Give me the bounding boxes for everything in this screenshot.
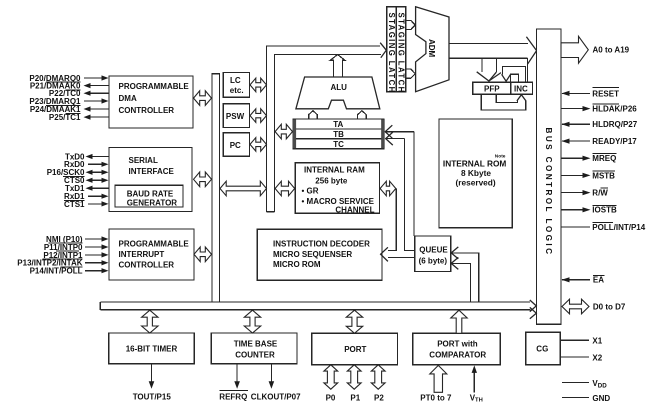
svg-text:HLDRQ/P27: HLDRQ/P27 — [592, 120, 637, 129]
signal EA — [562, 275, 605, 284]
svg-text:CG: CG — [536, 345, 548, 354]
svg-text:INSTRUCTION DECODER: INSTRUCTION DECODER — [273, 240, 370, 249]
svg-text:etc.: etc. — [230, 86, 244, 95]
block: internal ROM — [439, 119, 512, 228]
wire: queue to decoder — [388, 257, 415, 259]
svg-text:MSTB: MSTB — [592, 171, 615, 180]
signal P21/DMAAK0 (overline) — [30, 82, 109, 91]
svg-text:(6 byte): (6 byte) — [419, 256, 448, 265]
signal X2 — [560, 353, 603, 362]
signal REFRQ — [219, 364, 248, 402]
svg-text:CONTROLLER: CONTROLLER — [119, 260, 175, 269]
register PSW — [223, 104, 249, 128]
block: serial interface — [109, 148, 192, 212]
svg-text:REFRQ: REFRQ — [219, 392, 247, 401]
wire: PFP to INC bottom loop (inner) — [496, 94, 517, 102]
port D0 to D7 (double arrow) — [562, 299, 626, 314]
svg-text:ALU: ALU — [331, 83, 348, 92]
connector INC top (staple) — [510, 74, 518, 82]
block: baud rate generator — [115, 185, 183, 207]
wire: branch down to PFP (open down arrow) — [477, 58, 501, 81]
connector ALU to TA (pentagon) — [309, 111, 318, 119]
svg-text:INTERFACE: INTERFACE — [129, 167, 175, 176]
svg-text:MREQ: MREQ — [592, 154, 616, 163]
signal IOSTB — [561, 205, 617, 214]
wire: INC to PFP top loop (outer) — [496, 58, 527, 82]
signal P11/INTP0 (underline) — [44, 243, 109, 252]
svg-text:COMPARATOR: COMPARATOR — [429, 350, 486, 359]
wire: RAM to v1 (double arrow) — [380, 181, 396, 196]
connector staging latch to ADM lower (pentagon) — [406, 69, 416, 78]
svg-text:TA: TA — [333, 120, 343, 129]
wire: TB line to v3 — [385, 125, 414, 236]
bus A (internal dual bus, vertical) — [212, 74, 220, 302]
svg-text:SERIAL: SERIAL — [129, 156, 158, 165]
svg-text:INTERNAL ROM: INTERNAL ROM — [443, 158, 507, 168]
signal P16/SCK0 (underline) — [47, 168, 109, 177]
wire: interrupt to bus A (double arrow) — [194, 247, 212, 262]
wire: TC line to v2 into queue — [386, 132, 415, 250]
svg-text:Note: Note — [495, 154, 506, 160]
register LC etc. — [223, 72, 249, 97]
signal P20/DMARQ0 — [29, 74, 108, 83]
svg-text:CONTROLLER: CONTROLLER — [119, 106, 175, 115]
svg-text:P25/TC1: P25/TC1 — [49, 113, 81, 122]
svg-text:PORT: PORT — [344, 345, 366, 354]
svg-text:BUS CONTROL LOGIC: BUS CONTROL LOGIC — [544, 128, 553, 257]
power VDD — [562, 379, 607, 390]
signal TOUT/P15 — [133, 364, 172, 402]
svg-text:IOSTB: IOSTB — [592, 206, 617, 215]
register INC — [511, 82, 533, 94]
svg-text:TOUT/P15: TOUT/P15 — [133, 392, 172, 401]
svg-text:PFP: PFP — [484, 85, 500, 94]
svg-text:CLKOUT/P07: CLKOUT/P07 — [251, 392, 301, 401]
block: port — [312, 333, 398, 365]
block: queue (6 byte) — [415, 236, 451, 272]
port P2 (double arrow) — [371, 365, 385, 403]
block: bus control logic — [537, 29, 561, 324]
svg-text:STAGING LATCH: STAGING LATCH — [387, 13, 396, 94]
svg-text:CTS1: CTS1 — [64, 200, 85, 209]
register PFP — [473, 82, 511, 94]
signal P13/INTP2/INTAK (underline on INTAK) — [17, 259, 108, 268]
signal VTH — [470, 365, 483, 403]
svg-text:MICRO ROM: MICRO ROM — [273, 260, 321, 269]
block: programmable DMA controller — [109, 76, 193, 128]
svg-text:GND: GND — [592, 394, 610, 403]
svg-text:PROGRAMMABLE: PROGRAMMABLE — [119, 239, 190, 248]
svg-text:P14/INT/POLL: P14/INT/POLL — [30, 267, 83, 276]
chevron arrowhead into staging latch — [380, 43, 386, 58]
signal R/W — [561, 188, 608, 197]
signal P25/TC1 (overline on TC1) — [49, 113, 109, 122]
staging latch 2 — [396, 7, 406, 94]
svg-text:PC: PC — [230, 141, 241, 150]
port P0 (double arrow) — [324, 365, 338, 403]
register file TA/TB/TC — [293, 119, 385, 149]
svg-text:HLDAK/P26: HLDAK/P26 — [592, 105, 637, 114]
svg-text:P0: P0 — [326, 393, 336, 402]
svg-text:LC: LC — [230, 76, 241, 85]
wire: LC to bus B (double arrow) — [250, 78, 267, 92]
wire: bus B to TA/TB/TC (double arrow) — [275, 124, 292, 139]
svg-text:• GR: • GR — [302, 187, 319, 196]
signal P24/DMAAK1 (overline) — [30, 105, 109, 114]
signal MSTB — [561, 171, 615, 180]
signal TxD1 — [65, 184, 109, 193]
signal MREQ — [561, 154, 617, 163]
svg-text:INTERNAL RAM: INTERNAL RAM — [304, 165, 365, 174]
svg-text:P2: P2 — [374, 393, 384, 402]
svg-text:P1: P1 — [350, 393, 360, 402]
wire: INC to PFP top loop (inner) — [503, 66, 526, 82]
svg-text:ADM: ADM — [427, 39, 436, 58]
wire: bus to port (double arrow) — [346, 310, 362, 333]
chevron arrowheads bus into BCL — [530, 300, 537, 312]
svg-text:QUEUE: QUEUE — [419, 246, 448, 255]
wire: PFP to INC bottom loop (outer) — [481, 94, 526, 110]
svg-text:POLL/INT/P14: POLL/INT/P14 — [592, 223, 645, 232]
block: time base counter — [211, 333, 297, 364]
wire: ADM output to bus control logic (upper line) — [449, 43, 528, 45]
svg-text:EA: EA — [593, 276, 604, 285]
bus B (dual bus to staging latches) — [267, 46, 381, 212]
wire: ADM output to bus control logic (lower line) — [449, 57, 528, 59]
signal P22/TC0 (overline on TC0) — [49, 89, 109, 98]
signal READY/P17 — [562, 137, 638, 146]
wire: bus to queue (lower right) — [451, 257, 470, 302]
wire: PC to bus B (double arrow) — [250, 138, 267, 152]
connector ALU to TA 2 (pentagon) — [358, 111, 367, 119]
signal X1 — [560, 337, 603, 346]
arrowhead into INC bottom (small V up) — [517, 95, 526, 101]
svg-text:256 byte: 256 byte — [315, 176, 348, 185]
signal HLDRQ/P27 — [562, 120, 638, 129]
svg-text:GENERATOR: GENERATOR — [127, 199, 178, 208]
wire: ALU output up arrow — [330, 55, 345, 78]
wire: PSW to bus B (double arrow) — [250, 109, 267, 123]
signal P14/INT/POLL — [30, 267, 109, 276]
svg-text:A0 to A19: A0 to A19 — [593, 46, 630, 55]
signal HLDAK/P26 — [561, 104, 637, 114]
wire: bus to time base counter (double arrow) — [244, 310, 260, 333]
svg-text:TC: TC — [333, 140, 344, 149]
svg-text:R/W: R/W — [592, 189, 608, 198]
svg-text:DMA: DMA — [119, 94, 137, 103]
svg-text:(reserved): (reserved) — [456, 178, 496, 188]
wire: bus to queue (upper right) — [451, 247, 479, 302]
wire: DMA to bus A (double arrow) — [194, 91, 212, 106]
svg-text:PORT with: PORT with — [437, 339, 478, 348]
svg-text:MICRO SEQUENSER: MICRO SEQUENSER — [273, 250, 352, 259]
svg-text:X2: X2 — [592, 353, 602, 362]
wire: v1 RAM to decoder arrow — [388, 189, 396, 251]
wire: port with comparator to bus (up arrow) — [451, 310, 467, 333]
svg-text:INC: INC — [514, 85, 528, 94]
svg-text:STAGING LATCH: STAGING LATCH — [396, 13, 405, 94]
svg-text:CHANNEL: CHANNEL — [335, 205, 374, 214]
wire: bus A to bus B (double arrow) — [220, 181, 267, 196]
svg-text:PT0 to 7: PT0 to 7 — [420, 393, 452, 402]
big open arrowhead into BCL — [526, 37, 536, 65]
port A0 to A19 (big hollow arrow) — [561, 36, 630, 63]
connector staging latch to ADM upper (pentagon) — [406, 20, 416, 29]
block: programmable interrupt controller — [109, 229, 194, 280]
signal RESET — [562, 88, 620, 99]
signal CTS1 — [64, 200, 108, 209]
op block ADM — [416, 7, 449, 92]
svg-text:16-BIT TIMER: 16-BIT TIMER — [126, 344, 178, 353]
block: 16-bit timer — [109, 333, 195, 364]
arrowhead into decoder (big chevron) — [381, 247, 388, 261]
svg-text:TB: TB — [333, 130, 344, 139]
svg-text:BAUD RATE: BAUD RATE — [127, 189, 174, 198]
block: port with comparator — [413, 333, 501, 365]
register PC — [223, 133, 249, 157]
signal NMI (P10) — [46, 235, 108, 244]
port P1 (double arrow) — [347, 365, 361, 403]
signal POLL/INT/P14 — [561, 223, 646, 232]
port PT0 to 7 (hollow up arrow) — [420, 365, 452, 402]
svg-text:PSW: PSW — [226, 112, 245, 121]
svg-text:PROGRAMMABLE: PROGRAMMABLE — [119, 82, 190, 91]
signal TxD0 — [65, 152, 109, 161]
signal CLKOUT/P07 — [251, 364, 301, 402]
block: instruction decoder / micro sequenser / micro ROM — [257, 229, 382, 280]
signal P12/INTP1 (underline) — [43, 251, 109, 260]
svg-text:READY/P17: READY/P17 — [592, 137, 637, 146]
wire: bus to timer (double arrow) — [142, 310, 158, 333]
block: internal RAM — [295, 163, 379, 215]
svg-text:TIME BASE: TIME BASE — [234, 339, 278, 348]
svg-text:RESET: RESET — [592, 89, 619, 98]
block: CG — [526, 332, 561, 364]
ground GND — [562, 394, 610, 403]
staging latch 1 — [387, 7, 397, 94]
arrowhead into PFP/INC top (small V) — [502, 74, 511, 81]
signal P23/DMARQ1 — [29, 97, 108, 106]
svg-text:D0 to D7: D0 to D7 — [593, 302, 626, 311]
signal CTS0 — [64, 176, 108, 185]
svg-text:X1: X1 — [592, 337, 602, 346]
wire: serial to bus A (double arrow) — [194, 172, 212, 187]
svg-text:INTERRUPT: INTERRUPT — [119, 250, 165, 259]
svg-text:COUNTER: COUNTER — [235, 350, 275, 359]
svg-text:8 Kbyte: 8 Kbyte — [461, 168, 491, 178]
signal RxD0 — [64, 160, 108, 169]
main horizontal bus (double line) — [100, 302, 530, 310]
signal RxD1 (underline) — [64, 192, 109, 201]
op block ALU — [296, 77, 380, 109]
wire: bus B to RAM (double arrow) — [275, 181, 295, 196]
